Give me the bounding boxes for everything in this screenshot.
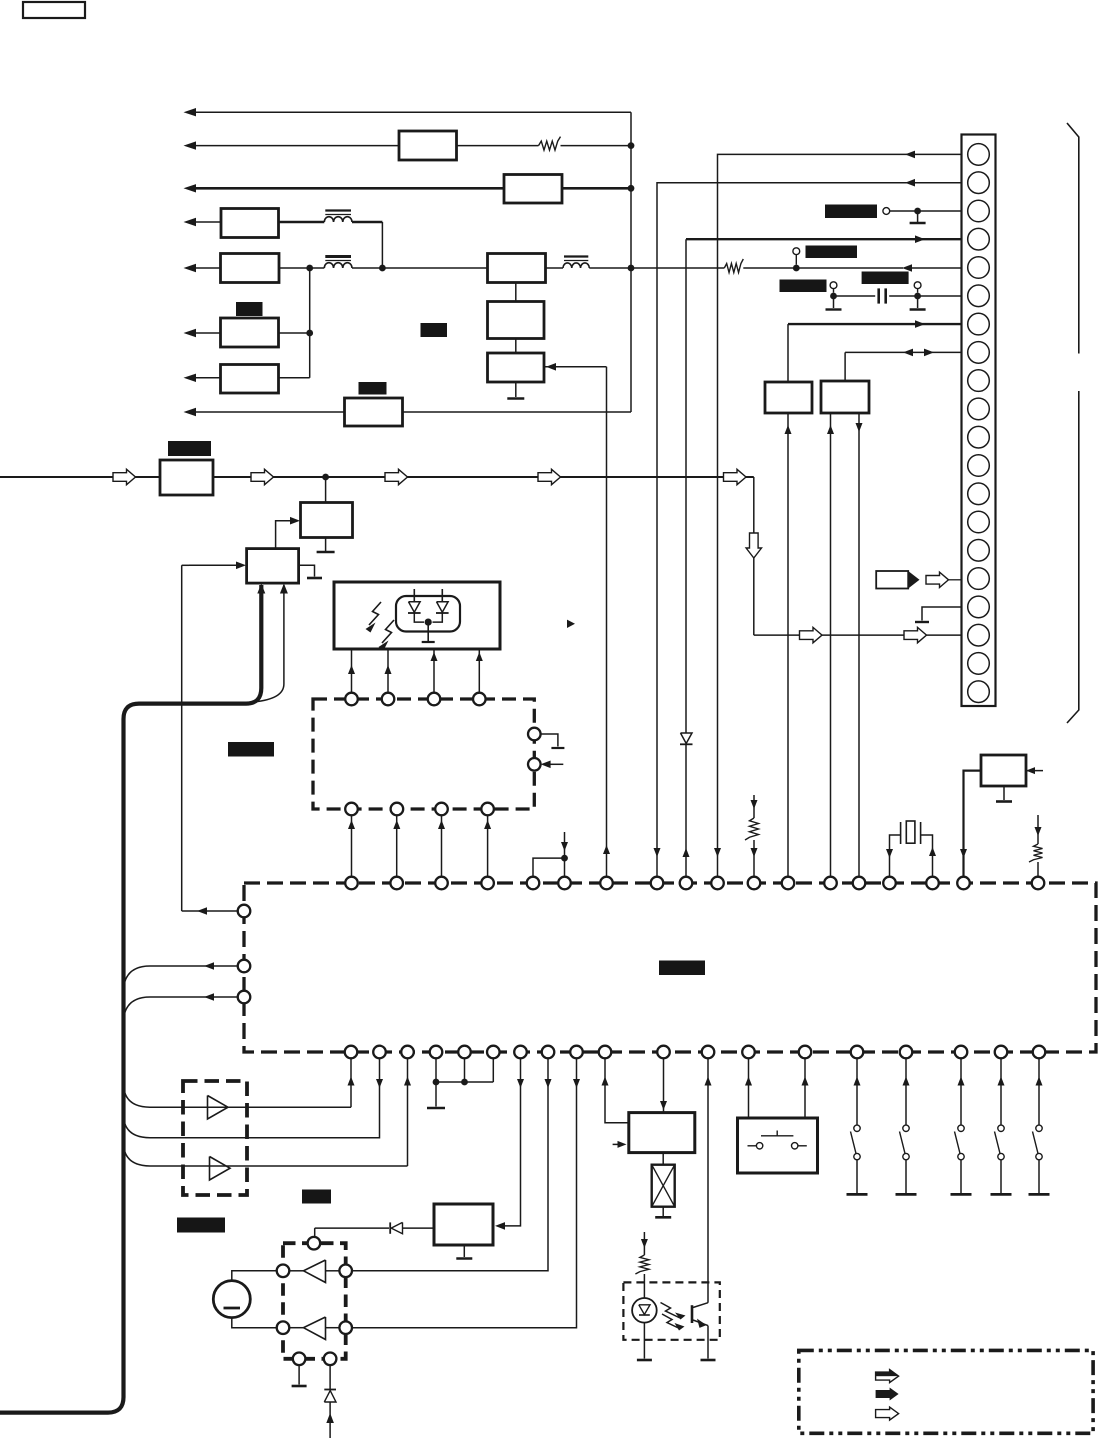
wire row1 output line xyxy=(196,111,631,113)
junction row5 node B xyxy=(379,265,386,272)
pin driver bottom 2 xyxy=(324,1353,337,1366)
arrow LED supply down xyxy=(641,1239,648,1248)
ground switch S8 xyxy=(991,1193,1012,1196)
pin CN1-10 xyxy=(968,398,990,420)
junction rail b xyxy=(461,1079,468,1086)
pin IC top x=889.5 xyxy=(883,877,896,890)
switch S8 xyxy=(998,1125,1004,1131)
label row4 (blacked out) xyxy=(236,302,263,316)
junction row2/trunk xyxy=(628,142,635,149)
arrow amp2 into IC xyxy=(404,1077,411,1086)
switch contact S4 xyxy=(917,289,919,293)
pin RF right 2 xyxy=(528,758,541,771)
block U1 (sync processor) xyxy=(301,503,353,538)
junction row5 node A xyxy=(306,265,313,272)
pin driver left 1 xyxy=(277,1265,290,1278)
pin CN1-9 xyxy=(968,370,990,392)
wire amp mid line (IC to cable) xyxy=(124,1059,380,1138)
arrow pickup d xyxy=(476,652,483,661)
wire pin7 (thick) via box A xyxy=(788,323,962,325)
arrow switch S5 xyxy=(854,1077,861,1086)
marker triangle (tracking direction) xyxy=(567,620,575,628)
junction pin6 right xyxy=(914,293,921,300)
wire chain link 1 xyxy=(515,283,517,302)
ground switch S5 xyxy=(847,1193,868,1196)
wire flex cable inner line xyxy=(250,585,284,702)
wire pickup to RF pin a xyxy=(351,649,353,692)
junction row5 switch node xyxy=(793,265,800,272)
wire X1 left to IC xyxy=(890,835,901,877)
arrow photo line up xyxy=(705,1077,712,1086)
wire box1 ground stub xyxy=(325,538,327,552)
wire row7 output line xyxy=(196,377,221,379)
wire box2 to box1 xyxy=(276,521,292,549)
pin IC bottom x=1001 xyxy=(995,1046,1008,1059)
pin IC bottom x=663.5 xyxy=(657,1046,670,1059)
crystal X1 xyxy=(900,822,902,844)
pin CN1-12 xyxy=(968,455,990,477)
ground box1 xyxy=(317,551,335,554)
inductor L2 ferrite bead (row5) xyxy=(324,263,352,268)
block U2 (driver to pickup) xyxy=(247,549,299,584)
photodiode PD assembly rounded frame xyxy=(396,596,460,632)
wire pin1 to IC (via x=717.5) xyxy=(718,154,962,876)
wire IC to switch S5 (x=857) xyxy=(856,1059,858,1126)
wire IC to switch S6 (x=906) xyxy=(905,1059,907,1126)
wire row6 output line xyxy=(196,332,221,334)
junction row6 node xyxy=(306,330,313,337)
wire IC to switch box a (x=748.5) xyxy=(748,1059,750,1119)
wire IC to switch S7 (x=961) xyxy=(960,1059,962,1126)
pin IC bottom x=1039 xyxy=(1033,1046,1046,1059)
wire RF right1 ground xyxy=(541,734,558,747)
hollow arrow branch down xyxy=(746,533,761,558)
wire IC to RH box (x=520.5) xyxy=(503,1059,521,1226)
ground pin17 xyxy=(915,621,929,623)
label pin5 (blacked out) xyxy=(806,246,858,259)
pin IC bottom x=708 xyxy=(702,1046,715,1059)
pin IC bottom x=906 xyxy=(900,1046,913,1059)
photodiode D2 xyxy=(441,589,443,602)
wire pickup to RF pin d xyxy=(478,649,480,692)
pin IC bottom x=436 xyxy=(430,1046,443,1059)
arrow amp1 into IC xyxy=(348,1077,355,1086)
arrow box B out down xyxy=(856,423,863,432)
wire IC to switch S9 (x=1039) xyxy=(1038,1059,1040,1126)
arrow into reset IC xyxy=(1026,767,1035,774)
ground PD xyxy=(422,641,435,643)
hollow arrow pin16 xyxy=(926,572,949,587)
block optical pickup (thick box) xyxy=(334,582,500,649)
junction row5/trunk xyxy=(628,265,635,272)
pin RF bottom d xyxy=(481,803,494,816)
wire IC into solenoid top (x=663.5) xyxy=(663,1059,665,1113)
wire IC-to-box2 vertical xyxy=(181,565,183,911)
ground pin3 xyxy=(910,222,926,224)
pin CN1-2 xyxy=(968,172,990,194)
pin IC top x=788 xyxy=(782,877,795,890)
wire branch to connector pin 18 xyxy=(754,634,962,636)
legend box (dash-dot frame) xyxy=(799,1350,1093,1433)
pin IC bottom x=576.5 xyxy=(570,1046,583,1059)
IC main servo/DSP (dashed box) xyxy=(244,883,1096,1052)
switch contact S1 (open circle) xyxy=(795,255,797,265)
arrow into chain block xyxy=(546,363,556,371)
pin IC top x=564.5 xyxy=(558,877,571,890)
arrow R3 top xyxy=(751,800,758,809)
wire pin6 left ground stub xyxy=(833,296,835,308)
ground rail xyxy=(427,1107,445,1110)
label motor area (blacked out) xyxy=(177,1218,225,1233)
pin IC top x=487.6 xyxy=(481,877,494,890)
ground solenoid xyxy=(655,1216,671,1219)
ground box2 xyxy=(307,577,322,580)
arrow RF a xyxy=(348,820,355,829)
pin IC top x=932.5 xyxy=(926,877,939,890)
junction rail a xyxy=(433,1079,440,1086)
pin driver right 1 xyxy=(339,1265,352,1278)
wire main signal line xyxy=(0,476,160,478)
pin IC top x=533 xyxy=(527,877,540,890)
arrow IC left 1 xyxy=(197,907,207,915)
diode D4 (zener) xyxy=(324,1389,336,1391)
label RF amp (blacked out) xyxy=(228,742,274,757)
hollow arrow main 4 xyxy=(538,469,561,484)
junction pin3 xyxy=(914,208,921,215)
pin IC top x=963.5 xyxy=(957,877,970,890)
wire RF a to IC xyxy=(351,816,353,877)
wire chain ground stub xyxy=(515,382,517,397)
laser beam arrows (pickup) xyxy=(369,602,381,625)
wire RH ground stub xyxy=(463,1245,465,1257)
wire row5 output line xyxy=(196,267,221,269)
ground Q1 xyxy=(701,1359,716,1362)
wire floating input to IC (x=564.5) xyxy=(564,832,566,877)
legend arrow signal (half filled) xyxy=(876,1372,890,1376)
pin RF top c xyxy=(428,693,441,706)
pin CN1-8 xyxy=(968,342,990,364)
wire IC to switch box b (x=805) xyxy=(804,1059,806,1119)
arrow IC down c xyxy=(573,1079,580,1088)
pin CN1-6 xyxy=(968,285,990,307)
arrow supply up xyxy=(326,1413,334,1423)
block chain bottom xyxy=(488,353,545,382)
transistor Q1 (photo) xyxy=(691,1305,694,1323)
ground pin6 left xyxy=(826,308,842,310)
pin CN1-3 xyxy=(968,200,990,222)
arrow into box B xyxy=(827,425,834,434)
wire resistor stub R4 to IC xyxy=(1037,815,1039,844)
arrow row4 left xyxy=(184,218,197,226)
pin IC top x=754 xyxy=(748,877,761,890)
arrow row7 left xyxy=(184,374,197,382)
label main-line block (blacked out) xyxy=(168,441,211,456)
pin IC bottom x=407.5 xyxy=(401,1046,414,1059)
arrow R4 top xyxy=(1035,827,1042,836)
photodiode D1 xyxy=(413,589,415,602)
bracket right upper (to mechanism) xyxy=(1067,123,1079,354)
pin IC top x=657 xyxy=(651,877,664,890)
pin IC bottom x=493.3 xyxy=(487,1046,500,1059)
arrow IC pin up (chain line) xyxy=(603,845,610,854)
pin CN1-16 xyxy=(968,568,990,590)
pin CN1-11 xyxy=(968,426,990,448)
wire box B output to IC xyxy=(858,413,860,877)
arrow stub into solenoid box left xyxy=(613,1143,618,1145)
pin RF bottom c xyxy=(435,803,448,816)
arrow box2 to box1 xyxy=(290,517,300,525)
wire row4 to row5 drop xyxy=(381,222,383,268)
arrow switch S9 xyxy=(1036,1077,1043,1086)
pin CN1-4 xyxy=(968,228,990,250)
arrow pickup a xyxy=(348,665,355,674)
ground switch S9 xyxy=(1029,1193,1050,1196)
pin CN1-20 xyxy=(968,681,990,703)
pin IC left y=997 xyxy=(238,991,251,1004)
pin CN1-18 xyxy=(968,624,990,646)
pin RF bottom b xyxy=(391,803,404,816)
wire IC to switch S8 (x=1001) xyxy=(1000,1059,1002,1126)
pin IC top x=351.5 xyxy=(345,877,358,890)
hollow arrow main 3 xyxy=(385,469,408,484)
arrow reset to IC xyxy=(960,849,967,858)
pin IC bottom x=464.5 xyxy=(458,1046,471,1059)
pin IC bottom x=351 xyxy=(345,1046,358,1059)
wire IC left pin1 to U2 xyxy=(182,910,238,912)
pin IC top x=830.5 xyxy=(824,877,837,890)
ground pin6 right xyxy=(910,308,926,310)
block row6 (regulator) xyxy=(221,318,279,347)
resistor R2 (row5 right) xyxy=(724,259,743,273)
pin driver top xyxy=(308,1237,321,1250)
wire pin3 switch line xyxy=(890,210,962,212)
pin RF top a xyxy=(345,693,358,706)
pin RF bottom a xyxy=(345,803,358,816)
connector CN1 (20-pin) xyxy=(962,135,996,707)
arrow switch box b xyxy=(802,1077,809,1086)
junction floating/branch xyxy=(561,855,568,862)
wire Q1 emitter to ground xyxy=(707,1326,709,1359)
wire RH to diode to driver xyxy=(403,1227,434,1229)
wire pin8 bidirectional via box B xyxy=(845,351,961,353)
pin IC bottom x=520.5 xyxy=(514,1046,527,1059)
inductor L3 ferrite bead (row5 right) xyxy=(563,263,589,268)
wire LED supply with resistor R5 xyxy=(643,1232,645,1255)
arrow cable into U2 a xyxy=(257,584,265,594)
legend arrow hollow xyxy=(876,1407,899,1420)
arrow RF c xyxy=(438,820,445,829)
pin IC top x=441.5 xyxy=(435,877,448,890)
op-amp driver amp 1 xyxy=(304,1260,326,1283)
arrow amp mid down xyxy=(376,1079,383,1088)
arrow into RF right2 xyxy=(541,761,551,769)
pin driver right 2 xyxy=(339,1321,352,1334)
switch S9 xyxy=(1036,1125,1042,1131)
wire RF right2 input xyxy=(548,763,563,765)
wire X1 right to IC xyxy=(921,835,933,877)
arrow pin8 left xyxy=(903,349,913,357)
arrow IC down b xyxy=(545,1079,552,1088)
arrow X1 right xyxy=(929,847,936,856)
wire motor + lead xyxy=(232,1271,277,1281)
arrow pin1 at connector xyxy=(905,151,915,159)
arrow floating input xyxy=(561,842,568,851)
block row3 (filter) xyxy=(504,175,562,204)
op-amp block motor drivers (dashed) xyxy=(183,1081,247,1195)
pin IC bottom x=548 xyxy=(542,1046,555,1059)
pin CN1-1 xyxy=(968,144,990,166)
block power IC (row5 center) xyxy=(488,254,546,283)
wire RF b to IC xyxy=(396,816,398,877)
pin IC bottom x=857 xyxy=(851,1046,864,1059)
block B (level shift) xyxy=(821,381,869,413)
capacitor C1 xyxy=(877,288,880,303)
wire box2 left input from IC xyxy=(189,564,238,566)
arrow pin1 into IC xyxy=(714,848,721,857)
wire IC to solenoid block (x=605) xyxy=(605,1059,629,1123)
legend arrow solid xyxy=(876,1388,899,1401)
wire row2 output line xyxy=(196,145,399,147)
pin IC top x=717.5 xyxy=(711,877,724,890)
switch contact S3 xyxy=(833,289,835,293)
label pin3 (blacked out) xyxy=(825,205,877,219)
wire amp2 line (cable to IC) xyxy=(124,1059,408,1167)
diode D3 xyxy=(389,1222,391,1233)
hollow arrow pin18 line 2 xyxy=(904,627,927,642)
wire main line branch down xyxy=(753,477,755,635)
junction photodiode common xyxy=(425,619,432,626)
label pin6 left (blacked out) xyxy=(780,280,827,293)
junction pin6 left xyxy=(830,293,837,300)
wire chain link 2 xyxy=(515,339,517,354)
bracket right lower (to mechanism) xyxy=(1067,391,1079,723)
LED D5 (emitter) xyxy=(632,1298,657,1323)
arrow pin7 into connector xyxy=(915,320,925,328)
ground reset IC xyxy=(996,800,1012,803)
wire pin17 ground stub xyxy=(922,607,962,621)
diode D2 (pin4 line) xyxy=(681,733,693,744)
switch S5 xyxy=(854,1125,860,1131)
wire driver bottom2 to supply xyxy=(329,1365,331,1389)
label amp area (blacked out) xyxy=(302,1190,331,1204)
wire reset out to IC xyxy=(964,771,982,877)
wire box A to IC xyxy=(787,413,789,877)
wire amp1 line (cable to IC) xyxy=(124,1059,352,1108)
arrow into pin5 xyxy=(902,264,912,272)
hollow arrow pin18 line 1 xyxy=(800,627,823,642)
wire IC to driver right a (x=548) xyxy=(352,1059,548,1271)
wire pin3 ground stub xyxy=(917,211,919,222)
arrow IC left 2 xyxy=(204,962,214,970)
hollow arrow main 5 xyxy=(724,469,747,484)
wire row8 output line xyxy=(196,411,345,413)
arrow row3 left xyxy=(184,184,197,192)
resistor R5 xyxy=(635,1255,649,1274)
wire trunk vertical (junction bus) xyxy=(630,112,632,412)
pin IC top x=1038 xyxy=(1032,877,1045,890)
arrow pin2 at connector xyxy=(905,179,915,187)
title box (empty label frame, top-left) xyxy=(23,2,85,18)
wire pin4 from IC (thick, via x=686) xyxy=(686,238,962,240)
arrow RF b xyxy=(393,820,400,829)
pushbutton SW1 contacts xyxy=(748,1145,757,1147)
block limit switch (pushbutton) xyxy=(738,1118,818,1173)
inductor L1 ferrite bead (row4) xyxy=(324,217,352,222)
block row7 (regulator) xyxy=(221,365,279,394)
pin IC top x=396.7 xyxy=(390,877,403,890)
arrow row5 left xyxy=(184,264,197,272)
wire driver amp1 leads xyxy=(289,1270,303,1272)
ground driver xyxy=(292,1385,307,1388)
wire IC to driver right b (x=576.5) xyxy=(352,1059,577,1328)
wire IC ground rail stubs xyxy=(435,1059,437,1083)
arrow pin4 into connector xyxy=(915,235,925,243)
light arrows (interrupter) xyxy=(661,1303,681,1319)
label main IC (blacked out) xyxy=(659,961,705,976)
motor M1 (spindle) xyxy=(213,1281,250,1318)
arrow switch S7 xyxy=(958,1077,965,1086)
resistor R4 xyxy=(1029,844,1043,862)
block row8 (reset) xyxy=(345,398,403,426)
pin IC top x=606.5 xyxy=(600,877,613,890)
wire driver bottom1 ground stub xyxy=(298,1365,300,1384)
wire pickup to RF pin c xyxy=(433,649,435,692)
arrow into box2 xyxy=(236,562,246,570)
label pin6 right (blacked out) xyxy=(862,272,909,285)
block row4 (regulator) xyxy=(221,209,279,238)
wire reset ground stub xyxy=(1003,786,1005,800)
wire reset input stub xyxy=(1026,770,1043,772)
block RH (spindle control) xyxy=(434,1204,493,1245)
op-amp A1 (focus/tracking) xyxy=(208,1096,229,1120)
block row2 (filter) xyxy=(399,131,457,160)
wire motor - lead xyxy=(232,1318,277,1328)
pin RF top d xyxy=(473,693,486,706)
arrow RF d xyxy=(484,820,491,829)
pin RF right 1 xyxy=(528,728,541,741)
arrow into RH box xyxy=(495,1222,505,1230)
arrow pin2 into IC xyxy=(654,848,661,857)
wire pickup to RF pin b xyxy=(387,649,389,692)
op-amp block RF amplifier (dashed) xyxy=(313,699,534,809)
hollow arrow main 2 xyxy=(251,469,274,484)
wire row5 to connector pin 5 xyxy=(912,267,962,269)
arrow into solenoid box xyxy=(660,1101,667,1110)
resistor R1 (row2) xyxy=(539,137,561,151)
arrow pin8 right xyxy=(924,349,934,357)
arrow IC down a xyxy=(517,1079,524,1088)
wire IC left pin3 to cable xyxy=(124,997,238,1019)
ground switch S6 xyxy=(896,1193,917,1196)
arrow switch S6 xyxy=(903,1077,910,1086)
ground chain xyxy=(507,397,524,400)
wire PD ground stub xyxy=(427,622,429,641)
op-amp A2 xyxy=(210,1157,231,1181)
op-amp driver amp 2 xyxy=(304,1317,326,1340)
arrow pickup c xyxy=(431,652,438,661)
arrow switch box a xyxy=(745,1077,752,1086)
wire branch to pin 533 xyxy=(533,858,565,876)
wire resistor stub R3 to IC xyxy=(753,795,755,818)
junction row3/trunk xyxy=(628,185,635,192)
wire rail ground stub xyxy=(435,1082,437,1107)
pin CN1-17 xyxy=(968,596,990,618)
pin IC bottom x=379.5 xyxy=(373,1046,386,1059)
op-amp block spindle driver (dashed) xyxy=(283,1243,346,1359)
block row5 (regulator) xyxy=(221,254,280,283)
wire pin2 to IC (via x=657) xyxy=(657,183,962,877)
arrow X1 left xyxy=(886,849,893,858)
